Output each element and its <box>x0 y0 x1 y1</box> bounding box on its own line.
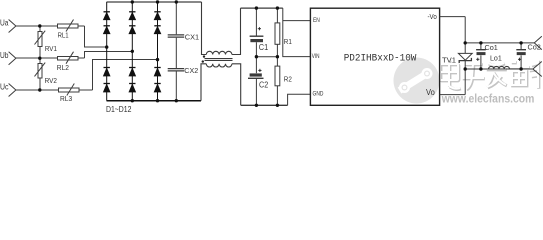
svg-text:TV1: TV1 <box>442 55 456 64</box>
svg-text:-Vo: -Vo <box>428 14 437 21</box>
svg-text:D1~D12: D1~D12 <box>106 104 132 114</box>
svg-text:www.elecfans.com: www.elecfans.com <box>441 94 535 106</box>
svg-text:RL3: RL3 <box>60 94 72 103</box>
svg-text:R2: R2 <box>284 75 292 84</box>
svg-text:GND: GND <box>313 90 324 97</box>
svg-text:C2: C2 <box>259 81 269 90</box>
svg-text:RV2: RV2 <box>45 76 57 85</box>
svg-text:RL2: RL2 <box>57 63 69 72</box>
svg-text:C1: C1 <box>259 43 269 52</box>
svg-text:Ua: Ua <box>0 19 9 28</box>
svg-text:Co1: Co1 <box>485 43 498 52</box>
svg-text:EN: EN <box>313 17 320 24</box>
svg-text:RL1: RL1 <box>58 31 69 40</box>
svg-text:CX2: CX2 <box>184 66 198 75</box>
svg-text:RV1: RV1 <box>45 44 57 53</box>
svg-text:CX1: CX1 <box>185 32 199 41</box>
svg-text:Lo1: Lo1 <box>490 54 502 63</box>
svg-text:R1: R1 <box>284 37 292 46</box>
svg-text:PD2IHBxxD-10W: PD2IHBxxD-10W <box>344 53 417 64</box>
svg-text:Co2: Co2 <box>528 43 541 52</box>
svg-text:Uc: Uc <box>0 83 9 92</box>
svg-text:Ub: Ub <box>0 51 9 60</box>
svg-text:Vo: Vo <box>426 88 435 97</box>
svg-text:VIN: VIN <box>312 53 320 60</box>
